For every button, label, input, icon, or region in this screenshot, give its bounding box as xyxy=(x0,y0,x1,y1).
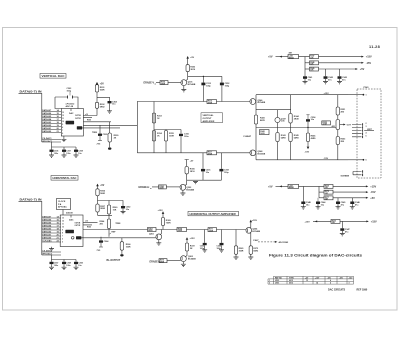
svg-text:11: 11 xyxy=(62,224,64,226)
svg-text:3: 3 xyxy=(349,283,350,285)
resistor R346 xyxy=(307,128,309,134)
svg-text:AFT.DAC: AFT.DAC xyxy=(58,206,67,209)
resistor R376 rail box xyxy=(331,220,340,224)
wire into node xyxy=(96,108,98,115)
wire rail to pin 6 xyxy=(348,159,363,161)
wire tie with ground xyxy=(187,179,222,181)
label box VERTICAL DAC xyxy=(40,74,66,79)
svg-text:DATA-B5: DATA-B5 xyxy=(42,115,52,118)
supply +15V xyxy=(162,214,164,218)
svg-text:8412: 8412 xyxy=(66,231,72,234)
svg-text:13: 13 xyxy=(62,112,64,114)
label box VERTICAL OUTPUT AMPLIFIER xyxy=(201,113,223,123)
svg-text:7: 7 xyxy=(62,130,63,132)
svg-text:-15V: -15V xyxy=(324,158,329,160)
resistor R316 xyxy=(207,100,217,104)
ground under IC xyxy=(63,136,65,139)
wire xyxy=(97,196,99,204)
svg-text:11-28: 11-28 xyxy=(369,45,380,49)
svg-text:DATA-B2: DATA-B2 xyxy=(42,231,52,234)
wire loop rectangle xyxy=(137,102,250,153)
svg-text:OUT1R: OUT1R xyxy=(75,225,82,227)
svg-text:2: 2 xyxy=(366,123,367,125)
svg-text:TRIM: TRIM xyxy=(115,223,120,225)
supply +5V xyxy=(187,58,189,64)
wire DAC output to Q361 xyxy=(81,237,155,239)
svg-text:ERASE-V: ERASE-V xyxy=(144,81,155,84)
wire xyxy=(168,82,181,84)
resistor R375 rail box xyxy=(319,191,324,193)
svg-text:680R: 680R xyxy=(159,188,164,190)
svg-text:100p: 100p xyxy=(225,85,230,87)
wire midline to output xyxy=(256,127,336,129)
wire column two xyxy=(256,110,291,160)
wire column three xyxy=(290,95,292,160)
svg-text:680R: 680R xyxy=(161,83,166,85)
resistor R301 xyxy=(95,85,98,92)
svg-text:x10: x10 xyxy=(85,114,88,116)
wire collector xyxy=(186,72,188,81)
resistor R371 xyxy=(208,228,217,232)
svg-text:100R: 100R xyxy=(169,136,174,138)
connector screen pins xyxy=(353,172,362,175)
supply +5V tee xyxy=(185,160,189,167)
resistor R347 rail box xyxy=(310,55,319,59)
svg-text:8412: 8412 xyxy=(67,122,73,125)
svg-text:14: 14 xyxy=(316,282,318,285)
svg-text:9: 9 xyxy=(62,124,63,126)
transistor Q301 xyxy=(181,80,187,86)
svg-text:C366*: C366* xyxy=(253,240,259,242)
svg-text:REF 1890: REF 1890 xyxy=(357,289,368,292)
resistor R349 rail box xyxy=(305,68,310,70)
svg-text:+15V: +15V xyxy=(305,221,311,223)
capacitor C354 xyxy=(307,127,308,128)
wire collector tie xyxy=(188,75,222,77)
svg-text:221R: 221R xyxy=(323,124,328,126)
svg-text:100p: 100p xyxy=(224,172,229,174)
resistor R353 xyxy=(336,137,339,145)
svg-text:8: 8 xyxy=(62,127,63,129)
svg-text:x10: x10 xyxy=(85,221,88,223)
svg-text:CLK-DAC: CLK-DAC xyxy=(42,240,52,243)
svg-text:360R: 360R xyxy=(239,251,244,253)
wire rail2 xyxy=(319,62,363,64)
svg-text:+15V: +15V xyxy=(366,56,372,59)
capacitor C315 xyxy=(180,130,182,134)
svg-text:CLOCK: CLOCK xyxy=(58,201,66,203)
wire xyxy=(96,92,98,102)
ground emitter xyxy=(183,86,185,90)
svg-text:uPC6012: uPC6012 xyxy=(66,103,76,105)
svg-text:DATA-B3: DATA-B3 xyxy=(42,228,52,231)
wire bus lines into DAC xyxy=(42,218,61,242)
wire +15V top rail xyxy=(256,94,348,96)
svg-text:7: 7 xyxy=(62,236,63,238)
svg-text:HORIZONTAL DAC: HORIZONTAL DAC xyxy=(53,176,78,180)
capacitor C368 xyxy=(62,262,66,264)
wire xyxy=(156,229,177,231)
svg-text:ADC-08: ADC-08 xyxy=(66,105,74,108)
resistor R345 xyxy=(289,133,292,142)
svg-text:P341: P341 xyxy=(364,86,370,89)
capacitor C318 below loop xyxy=(220,153,222,180)
ground xyxy=(234,257,239,259)
op-amp U301 DAC IC xyxy=(61,109,83,137)
ground emitter xyxy=(182,190,184,193)
ground under IC xyxy=(51,247,53,249)
svg-text:1: 1 xyxy=(366,95,367,97)
transistor Q346 xyxy=(250,99,256,105)
svg-text:DATA(0-7) IN: DATA(0-7) IN xyxy=(20,198,42,202)
capacitor C341 xyxy=(303,76,307,79)
svg-text:DATA-B6: DATA-B6 xyxy=(42,112,52,115)
supply -15V xyxy=(307,142,309,147)
svg-text:13: 13 xyxy=(62,218,64,220)
svg-text:470R: 470R xyxy=(208,101,213,104)
svg-text:+15V: +15V xyxy=(190,238,196,240)
svg-text:8: 8 xyxy=(62,233,63,235)
svg-text:3: 3 xyxy=(366,126,367,128)
oscillator X361 clock box xyxy=(57,199,71,210)
capacitor C307 xyxy=(62,150,66,152)
svg-text:100u: 100u xyxy=(184,136,189,138)
svg-text:AMPLIFIER: AMPLIFIER xyxy=(203,120,215,123)
svg-text:2: 2 xyxy=(269,283,270,285)
resistor R370 xyxy=(159,259,167,263)
svg-text:6: 6 xyxy=(62,133,63,135)
transistor Q364 xyxy=(246,227,252,233)
wire collector xyxy=(185,251,187,257)
svg-text:6012: 6012 xyxy=(289,283,293,285)
svg-text:12: 12 xyxy=(62,221,64,223)
resistor R364 trimpot xyxy=(108,214,110,219)
svg-text:CS-DAC1: CS-DAC1 xyxy=(42,137,52,140)
svg-text:-15V: -15V xyxy=(305,151,310,153)
capacitor C365 xyxy=(221,230,223,243)
capacitor C369 xyxy=(74,262,78,264)
svg-text:OUTPUT: OUTPUT xyxy=(203,118,213,120)
wire collector xyxy=(185,174,187,186)
wire midline xyxy=(154,129,181,131)
svg-text:13: 13 xyxy=(306,280,308,282)
svg-text:DATA-B0: DATA-B0 xyxy=(42,237,52,240)
capacitor C304 xyxy=(108,101,112,103)
resistor R309 trimpot xyxy=(109,122,111,133)
svg-text:100p: 100p xyxy=(206,85,211,87)
svg-text:BC546B: BC546B xyxy=(188,258,196,261)
pin stubs with labels xyxy=(83,222,98,225)
capacitor C306 xyxy=(50,150,54,152)
wire branch to C304 xyxy=(97,97,110,101)
resistor R373 xyxy=(249,246,252,255)
resistor R304 xyxy=(160,81,168,85)
wire rail1 xyxy=(333,185,367,187)
revision table xyxy=(268,276,354,284)
wire dashed adjust xyxy=(258,241,276,243)
resistor R314 xyxy=(152,131,155,142)
svg-text:5: 5 xyxy=(62,242,63,244)
resistor R365 xyxy=(235,230,237,246)
resistor R313 xyxy=(153,102,155,153)
svg-text:DATA-B4: DATA-B4 xyxy=(42,118,52,121)
resistor R317 xyxy=(207,151,217,155)
svg-text:DATA-B1: DATA-B1 xyxy=(42,127,52,130)
resistor R352 box xyxy=(322,121,331,125)
label box HORIZONTAL OUTPUT AMPLIFIER xyxy=(188,211,239,215)
svg-text:DATA-B7: DATA-B7 xyxy=(42,216,52,219)
svg-text:+15V: +15V xyxy=(252,220,258,222)
svg-text:DATA(0-7) IN: DATA(0-7) IN xyxy=(20,90,42,94)
wire -15V bottom rail xyxy=(256,159,348,161)
capacitor C313 xyxy=(202,76,204,101)
inductor L341 bead xyxy=(288,55,299,59)
capacitor C363 xyxy=(204,230,206,243)
svg-text:DATA-B6: DATA-B6 xyxy=(42,219,52,222)
wire xyxy=(167,260,181,262)
svg-text:DAC08: DAC08 xyxy=(66,212,73,215)
svg-text:BC546B: BC546B xyxy=(186,188,194,191)
svg-text:DAC: DAC xyxy=(69,219,74,222)
svg-text:6: 6 xyxy=(366,160,367,162)
capacitor C347 xyxy=(341,221,343,228)
resistor R369 xyxy=(162,226,164,230)
svg-text:+15V: +15V xyxy=(371,221,377,224)
svg-text:560R: 560R xyxy=(100,89,105,91)
svg-text:P.A: P.A xyxy=(58,203,62,206)
ground xyxy=(107,111,112,113)
transistor Q363 xyxy=(181,256,187,262)
svg-text:12: 12 xyxy=(62,115,64,117)
svg-text:DATA-B0: DATA-B0 xyxy=(42,130,52,133)
wire junction xyxy=(299,186,325,201)
svg-text:10: 10 xyxy=(62,227,64,229)
resistor R341 xyxy=(254,115,257,124)
wire rail3 xyxy=(319,68,357,70)
svg-text:Figure 11.3 Circuit diagram of: Figure 11.3 Circuit diagram of DAC-circu… xyxy=(269,254,362,258)
capacitor C344 xyxy=(317,198,319,202)
svg-text:+5V: +5V xyxy=(190,57,194,59)
ground xyxy=(248,257,253,259)
wire into node xyxy=(98,212,113,215)
svg-text:+15V: +15V xyxy=(370,186,376,189)
wire output arrow xyxy=(340,124,344,126)
svg-text:10K: 10K xyxy=(113,209,117,211)
svg-text:+5V: +5V xyxy=(268,56,273,59)
wire gain line xyxy=(82,127,120,129)
svg-text:SCREEN: SCREEN xyxy=(341,176,350,178)
svg-text:BC546B: BC546B xyxy=(258,101,266,104)
terminal post xyxy=(108,147,111,149)
resistor R344 xyxy=(289,114,292,124)
capacitor C314 xyxy=(221,76,223,101)
svg-text:+5V: +5V xyxy=(100,83,105,85)
svg-text:BEAD: BEAD xyxy=(289,186,295,189)
svg-text:DATA-B3: DATA-B3 xyxy=(42,121,52,124)
svg-text:10: 10 xyxy=(62,121,64,123)
transistor Q351 output xyxy=(336,120,340,130)
resistor R354 xyxy=(150,187,159,189)
wire data input xyxy=(19,201,42,255)
svg-text:4: 4 xyxy=(330,282,331,285)
wire to decoupling row xyxy=(52,255,77,262)
capacitor C345 xyxy=(337,198,339,202)
svg-text:680R: 680R xyxy=(148,230,153,232)
resistor R315 xyxy=(165,130,167,153)
op-amp U361 DAC IC xyxy=(60,215,83,247)
capacitor C308 xyxy=(74,150,78,152)
wire xyxy=(340,220,367,222)
svg-text:BL.OUTPUT: BL.OUTPUT xyxy=(107,259,121,262)
svg-text:BC556B: BC556B xyxy=(258,154,266,156)
capacitor C348 xyxy=(301,202,305,205)
wire clock to IC xyxy=(62,210,64,216)
supply +15V xyxy=(186,240,188,243)
resistor R342 box xyxy=(260,130,270,135)
resistor R367 xyxy=(148,228,157,232)
wire rail to pin 1 xyxy=(348,94,363,96)
svg-text:ADJ R362: ADJ R362 xyxy=(279,241,290,244)
wire junction xyxy=(299,57,310,77)
svg-text:220R: 220R xyxy=(178,230,183,232)
wire DAC output upper xyxy=(83,121,111,123)
svg-text:DATA-B2: DATA-B2 xyxy=(42,124,52,127)
svg-text:680R: 680R xyxy=(160,261,165,263)
capacitor C364 trim xyxy=(100,237,102,241)
transistor Q347 xyxy=(275,117,280,122)
wire control lines xyxy=(42,252,61,255)
ground xyxy=(121,211,126,213)
capacitor C346 xyxy=(351,198,353,202)
resistor R356 xyxy=(96,189,99,196)
svg-text:U361: U361 xyxy=(275,283,279,285)
wire control lines xyxy=(42,140,61,143)
svg-text:BEAD: BEAD xyxy=(289,56,295,59)
svg-text:BC546B: BC546B xyxy=(252,230,260,233)
label box HORIZONTAL DAC xyxy=(51,176,78,181)
svg-text:470R: 470R xyxy=(208,153,213,156)
wire bus lines into DAC xyxy=(42,112,61,133)
transistor Q348 xyxy=(250,150,256,156)
connector P341 dashed box xyxy=(357,89,381,178)
svg-text:+5V: +5V xyxy=(100,185,105,187)
wire to R371 xyxy=(187,229,209,231)
transistor Q361 xyxy=(156,234,162,240)
wire DAC cascode line xyxy=(83,229,148,231)
capacitor C343 xyxy=(339,69,341,76)
svg-text:9: 9 xyxy=(62,230,63,232)
svg-text:1K65: 1K65 xyxy=(260,133,264,135)
resistor R360 xyxy=(108,201,110,206)
wire DAC output lower xyxy=(83,124,137,126)
capacitor C342 xyxy=(325,69,327,76)
wire emitter node xyxy=(249,233,252,246)
supply +5V arrow xyxy=(97,186,99,189)
svg-text:OUT1R: OUT1R xyxy=(75,118,82,120)
resistor R343 xyxy=(276,133,279,142)
wire data input xyxy=(19,93,42,142)
resistor R303 xyxy=(186,65,189,72)
capacitor C305 trim xyxy=(99,125,101,133)
svg-text:+5V: +5V xyxy=(360,68,365,71)
resistor R351 xyxy=(336,107,339,115)
svg-text:HORIZONTAL OUTPUT AMPLIFIER: HORIZONTAL OUTPUT AMPLIFIER xyxy=(190,212,236,216)
svg-text:R306: R306 xyxy=(87,119,91,121)
wire right column xyxy=(337,95,339,160)
resistor R305 xyxy=(185,167,188,174)
svg-text:4: 4 xyxy=(330,279,331,282)
resistor R366 xyxy=(121,238,123,242)
supply +15V collector xyxy=(249,222,252,228)
supply +5V arrow xyxy=(96,84,98,86)
svg-text:100p: 100p xyxy=(67,90,72,92)
resistor R372 xyxy=(185,243,188,251)
svg-text:+15V: +15V xyxy=(324,93,330,95)
capacitor C362 xyxy=(121,206,125,208)
svg-text:BC546B: BC546B xyxy=(188,83,196,86)
svg-text:-15V: -15V xyxy=(370,191,376,194)
svg-text:DATA-B5: DATA-B5 xyxy=(42,222,52,225)
svg-text:560R: 560R xyxy=(100,193,105,195)
wire xyxy=(166,186,180,188)
wire left column xyxy=(255,95,257,160)
wire rail1 xyxy=(319,56,363,58)
svg-text:DATA-B4: DATA-B4 xyxy=(42,225,52,228)
svg-text:R366: R366 xyxy=(87,227,91,229)
capacitor C366a xyxy=(50,262,54,264)
wire to decoupling row xyxy=(52,142,77,150)
wire to Q364 xyxy=(217,229,246,231)
svg-text:220R: 220R xyxy=(209,230,214,232)
svg-text:DATA-B7: DATA-B7 xyxy=(42,109,52,112)
svg-text:4: 4 xyxy=(366,131,367,134)
svg-text:DATA-B1: DATA-B1 xyxy=(42,234,52,237)
transistor Q302 xyxy=(180,184,186,190)
wire branch xyxy=(98,201,124,207)
svg-text:ADJ: ADJ xyxy=(332,125,336,128)
pin stubs with labels xyxy=(83,116,97,118)
capacitor C316 below loop xyxy=(202,153,204,180)
svg-text:+5V: +5V xyxy=(370,197,375,200)
resistor R357 xyxy=(96,204,99,212)
svg-text:ERASE-H: ERASE-H xyxy=(139,186,150,189)
svg-text:750R: 750R xyxy=(166,222,171,224)
svg-text:DAC CIRCUITS: DAC CIRCUITS xyxy=(328,289,346,292)
svg-text:TRIM: TRIM xyxy=(92,132,97,134)
svg-text:11: 11 xyxy=(62,118,64,120)
svg-text:150R: 150R xyxy=(126,246,131,248)
ground emitter xyxy=(158,240,160,243)
svg-text:6: 6 xyxy=(62,239,63,241)
svg-text:F-BEAT: F-BEAT xyxy=(244,135,252,138)
terminal post xyxy=(120,254,123,256)
wire xyxy=(155,83,161,84)
connector output pins xyxy=(352,125,362,137)
wire rail2 xyxy=(333,191,367,193)
resistor R368 xyxy=(177,228,187,232)
resistor R377 rail box xyxy=(319,197,324,199)
wire rail3 xyxy=(333,197,367,199)
svg-text:DAC: DAC xyxy=(69,112,74,115)
resistor R374 rail box xyxy=(324,185,333,189)
capacitor C301 bypass xyxy=(55,97,78,109)
ground emitter Q363 xyxy=(182,262,184,265)
svg-text:+5V: +5V xyxy=(268,185,273,188)
resistor R348 rail box xyxy=(305,62,310,64)
svg-text:VERTICAL DAC: VERTICAL DAC xyxy=(42,74,66,78)
svg-text:5: 5 xyxy=(366,136,367,138)
svg-text:-15V: -15V xyxy=(366,62,372,65)
